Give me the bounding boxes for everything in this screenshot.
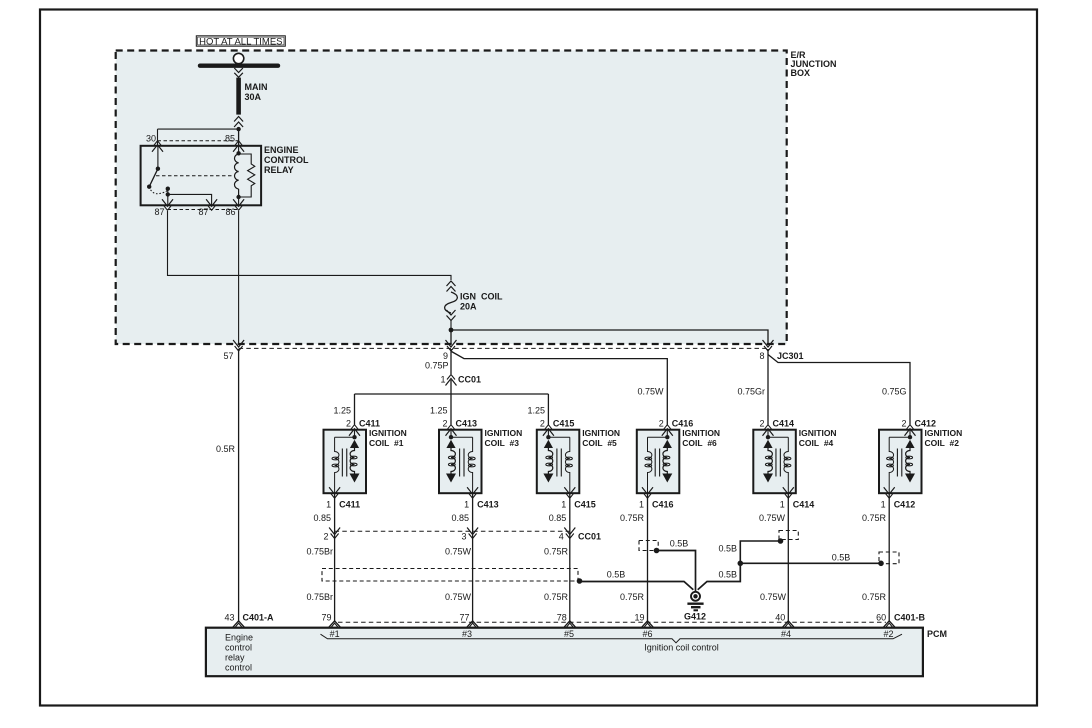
- wire pin 86 down to node 57: [238, 211, 240, 344]
- fuse MAIN 30A terminal top: [234, 68, 243, 73]
- svg-text:C412: C412: [894, 500, 916, 510]
- wire 9 to CC01: [450, 349, 452, 374]
- relay switch contact dot: [147, 185, 151, 189]
- svg-text:MAIN: MAIN: [245, 82, 268, 92]
- connector CC01 pin 2 crossing: [331, 534, 339, 539]
- svg-text:C414: C414: [773, 418, 795, 428]
- ignition coil C414 primary winding loops: [784, 457, 791, 460]
- svg-text:1: 1: [639, 500, 644, 510]
- svg-text:20A: 20A: [460, 302, 477, 312]
- ignition coil C413 core: [459, 449, 461, 477]
- svg-text:#5: #5: [564, 629, 574, 639]
- svg-text:0.5B: 0.5B: [670, 539, 689, 549]
- wire node to JC301 (horizontal): [451, 330, 768, 344]
- svg-text:43: 43: [224, 612, 234, 622]
- ignition coil C415 secondary winding loops: [546, 456, 553, 459]
- ignition coil C416 secondary arrow up: [663, 440, 672, 448]
- relay label: [264, 145, 309, 175]
- PCM pin 78 terminal: [564, 621, 576, 628]
- svg-text:HOT AT ALL TIMES: HOT AT ALL TIMES: [199, 37, 282, 48]
- svg-text:control: control: [225, 663, 252, 673]
- svg-text:C401-B: C401-B: [894, 612, 926, 622]
- ignition coil C413 box: [439, 430, 482, 494]
- ignition coil C415 internal link: [548, 436, 569, 438]
- PCM pin 60 terminal: [883, 621, 895, 628]
- svg-text:2: 2: [323, 532, 328, 542]
- ignition coil C413 label: [485, 428, 523, 448]
- ignition coil C416 internal link: [648, 436, 668, 438]
- relay coil top node: [236, 151, 240, 155]
- ignition coil C413 primary winding loops: [468, 457, 475, 460]
- wire fuse to relay pin 85: [238, 129, 240, 145]
- ignition coil C414 top terminal: [764, 425, 772, 430]
- E/R junction box label: [791, 50, 837, 78]
- relay pin 85 terminal: [235, 141, 243, 146]
- svg-text:C411: C411: [339, 500, 360, 510]
- ignition coil C416 primary winding: [648, 437, 652, 493]
- ignition coil C412 secondary winding: [906, 448, 910, 474]
- svg-text:8: 8: [759, 351, 764, 361]
- svg-text:0.5B: 0.5B: [832, 553, 851, 563]
- wire pin 30 drop: [157, 129, 159, 145]
- relay coil bottom node: [236, 195, 240, 199]
- wire splice4 to junction: [740, 541, 780, 563]
- node ignition feed: [449, 328, 454, 333]
- svg-text:30: 30: [146, 133, 156, 143]
- svg-text:1: 1: [780, 500, 785, 510]
- svg-text:1.25: 1.25: [333, 405, 351, 415]
- ignition coil C413 bottom terminal: [469, 493, 477, 498]
- svg-text:57: 57: [223, 351, 233, 361]
- svg-text:IGNITION: IGNITION: [682, 428, 720, 438]
- svg-text:C415: C415: [574, 500, 596, 510]
- shield box (coil 2): [879, 552, 899, 564]
- relay resistor R1 parallel: [239, 154, 255, 197]
- ignition coil C416 primary feed: [666, 430, 668, 437]
- relay coil tail: [238, 189, 240, 197]
- ignition coil C416 top terminal: [663, 425, 671, 430]
- HOT AT ALL TIMES label: [196, 36, 285, 48]
- ignition coil C414 secondary arrow down: [763, 474, 773, 483]
- wire node down to connector 9: [450, 330, 452, 344]
- connector CC01 dashed line: [335, 530, 570, 532]
- wire branch to coil 3: [450, 394, 452, 425]
- svg-text:1: 1: [326, 500, 331, 510]
- relay switch pivot dot: [156, 167, 160, 171]
- svg-text:C401-A: C401-A: [243, 612, 275, 622]
- relay coil wire top: [238, 146, 240, 154]
- ignition coil C415 primary winding: [565, 437, 569, 493]
- svg-text:IGNITION: IGNITION: [799, 428, 837, 438]
- svg-text:87: 87: [198, 207, 208, 217]
- ground junction node: [738, 561, 744, 567]
- svg-text:IGNITION: IGNITION: [582, 428, 620, 438]
- relay switch blade: [149, 169, 158, 187]
- ignition coil C416 label: [682, 428, 720, 448]
- svg-text:0.75R: 0.75R: [544, 592, 569, 602]
- svg-text:C411: C411: [359, 418, 380, 428]
- svg-text:0.75Gr: 0.75Gr: [737, 386, 765, 396]
- ignition coil C416 core: [654, 449, 656, 477]
- wire junction to ground: [698, 563, 741, 590]
- svg-text:0.75R: 0.75R: [862, 592, 887, 602]
- ignition coil C415 primary winding loops: [566, 457, 573, 460]
- ignition coil C411 top terminal: [351, 425, 359, 430]
- ignition coil C415 core: [556, 449, 558, 477]
- svg-text:87: 87: [154, 207, 164, 217]
- svg-text:4: 4: [559, 532, 564, 542]
- ignition coil C415 label: [582, 428, 620, 448]
- ignition coil C413 top terminal: [447, 425, 455, 430]
- PCM U1 box: [206, 628, 923, 677]
- svg-text:0.5B: 0.5B: [718, 570, 737, 580]
- svg-text:60: 60: [876, 612, 886, 622]
- svg-text:C416: C416: [652, 500, 674, 510]
- ignition coil C416 primary winding loops: [645, 457, 652, 460]
- svg-text:0.75Br: 0.75Br: [306, 592, 333, 602]
- connector CC01 pin 3 crossing: [469, 534, 477, 539]
- connector CC01 pin 1 crossing: [447, 375, 455, 380]
- fuse IGN COIL 20A element: [445, 292, 458, 313]
- ignition coil C414 core: [775, 449, 777, 477]
- svg-text:COIL #6: COIL #6: [682, 438, 717, 448]
- ignition coil C411 secondary arrow down: [350, 474, 360, 483]
- svg-text:0.75G: 0.75G: [882, 386, 907, 396]
- ignition coil C412 primary feed: [909, 430, 911, 437]
- svg-text:40: 40: [775, 612, 785, 622]
- ignition coil C415 secondary winding: [548, 448, 552, 474]
- splice node on shield: [577, 578, 583, 584]
- ignition coil C411 core: [341, 449, 343, 477]
- svg-text:0.75W: 0.75W: [445, 592, 472, 602]
- ignition coil C412 top terminal: [906, 425, 914, 430]
- svg-text:C416: C416: [672, 418, 694, 428]
- svg-text:CONTROL: CONTROL: [264, 155, 309, 165]
- wire coil2 to PCM pin 60: [888, 494, 890, 621]
- wire shield to ground G412: [580, 582, 694, 590]
- connector 57 crossing: [235, 346, 243, 351]
- dashed link pins 30-85: [158, 140, 239, 142]
- svg-text:JC301: JC301: [777, 351, 804, 361]
- wire junction to splice2: [740, 562, 881, 564]
- branch wire to coils 1-3-5: [355, 393, 549, 395]
- svg-text:2: 2: [901, 418, 906, 428]
- relay K1 ENGINE CONTROL RELAY box: [141, 146, 262, 206]
- connector 8 JC301 crossing: [764, 346, 772, 351]
- ignition coil C415 top terminal: [544, 425, 552, 430]
- svg-text:COIL #1: COIL #1: [369, 438, 404, 448]
- svg-text:COIL #4: COIL #4: [799, 438, 834, 448]
- svg-text:86: 86: [225, 207, 235, 217]
- ignition coil C416 secondary winding loops: [663, 456, 670, 459]
- relay contact dot 87 lower: [166, 192, 170, 196]
- splice node coil 2: [878, 561, 884, 567]
- svg-text:1: 1: [464, 500, 469, 510]
- ignition coil C413 secondary winding: [451, 448, 455, 474]
- relay pin 87a terminal: [164, 205, 172, 210]
- ignition coil C413 secondary arrow down: [446, 474, 456, 483]
- relay contact dot 87 upper: [166, 187, 170, 191]
- ignition coil C414 label: [799, 428, 837, 448]
- svg-text:COIL #3: COIL #3: [485, 438, 520, 448]
- svg-text:0.75R: 0.75R: [862, 513, 887, 523]
- relay switch wire from pin 30: [157, 146, 159, 169]
- wire 57 to PCM pin 43: [238, 349, 240, 621]
- wire coil6 to PCM pin 19: [647, 494, 649, 621]
- svg-text:0.5R: 0.5R: [216, 444, 236, 454]
- svg-text:#1: #1: [330, 629, 340, 639]
- svg-text:PCM: PCM: [927, 629, 947, 639]
- ignition coil C415 secondary arrow up: [544, 440, 553, 448]
- splice node coil 6: [654, 548, 660, 554]
- PCM function label engine control relay control: [225, 633, 253, 673]
- svg-text:0.85: 0.85: [451, 513, 469, 523]
- ignition coil C412 secondary arrow up: [905, 440, 914, 448]
- connector 9 crossing: [447, 346, 455, 351]
- relay mechanical link (dashed): [156, 175, 235, 177]
- svg-text:0.75R: 0.75R: [620, 592, 645, 602]
- svg-text:IGNITION: IGNITION: [485, 428, 523, 438]
- relay pin 87b terminal: [208, 205, 216, 210]
- svg-text:2: 2: [540, 418, 545, 428]
- svg-text:0.75W: 0.75W: [445, 547, 472, 557]
- svg-text:9: 9: [443, 351, 448, 361]
- dashed link pins 87-86: [168, 209, 239, 211]
- relay wire to pin 87a: [167, 194, 169, 205]
- shield box (coils 1-3-5): [322, 569, 578, 582]
- ignition coil C415 primary feed: [547, 430, 549, 437]
- svg-text:77: 77: [459, 612, 469, 622]
- svg-text:IGN COIL: IGN COIL: [460, 292, 503, 302]
- ignition coil C416 secondary arrow down: [662, 474, 672, 483]
- relay wire to pin 86: [238, 197, 240, 205]
- svg-text:0.75W: 0.75W: [760, 592, 787, 602]
- ignition coil C414 primary feed: [767, 430, 769, 437]
- brace ignition coil control: [321, 634, 903, 643]
- svg-text:78: 78: [557, 612, 567, 622]
- ignition coil C416 box: [637, 430, 680, 494]
- svg-text:#4: #4: [781, 629, 791, 639]
- relay coil L1: [234, 154, 238, 189]
- svg-text:2: 2: [759, 418, 764, 428]
- ignition coil C414 secondary winding: [768, 448, 772, 474]
- ignition coil C412 primary winding loops: [887, 457, 894, 460]
- ignition coil C415 bottom terminal: [566, 493, 574, 498]
- ignition coil C411 primary winding loops: [332, 457, 339, 460]
- svg-text:0.5B: 0.5B: [607, 570, 626, 580]
- ignition coil C416 bottom terminal: [644, 493, 652, 498]
- svg-text:#2: #2: [883, 629, 893, 639]
- svg-text:2: 2: [346, 418, 351, 428]
- ground G412 symbol: [687, 592, 703, 611]
- ignition coil C412 secondary winding loops: [906, 456, 913, 459]
- svg-text:C413: C413: [477, 500, 499, 510]
- svg-text:0.5B: 0.5B: [718, 544, 737, 554]
- svg-text:COIL #2: COIL #2: [925, 438, 960, 448]
- PCM pin 77 terminal: [466, 621, 478, 628]
- fuse MAIN 30A terminal bottom: [234, 117, 243, 122]
- ignition coil C411 primary feed: [354, 430, 356, 437]
- ignition coil C412 label: [925, 428, 963, 448]
- relay wire to pin 87b: [168, 194, 212, 205]
- svg-text:2: 2: [442, 418, 447, 428]
- fuse IGN COIL 20A terminal top: [447, 281, 456, 286]
- wire CC01 to branch node: [450, 380, 452, 394]
- ignition coil C414 secondary winding loops: [765, 456, 772, 459]
- svg-text:3: 3: [461, 532, 466, 542]
- svg-text:1: 1: [881, 500, 886, 510]
- svg-text:0.75Br: 0.75Br: [306, 547, 333, 557]
- wire coil1 to PCM pin 79: [334, 494, 336, 621]
- ignition coil C413 secondary arrow up: [446, 440, 455, 448]
- ignition coil C412 core: [896, 449, 898, 477]
- svg-text:G412: G412: [684, 611, 706, 621]
- wire pin 87a to IGN COIL fuse: [168, 211, 452, 280]
- ignition coil C414 primary winding: [784, 437, 788, 493]
- ignition coil C411 label: [369, 428, 407, 448]
- wire coil4 to PCM pin 40: [787, 494, 789, 621]
- svg-text:C413: C413: [456, 418, 478, 428]
- ignition coil C412 box: [879, 430, 922, 494]
- svg-text:0.75W: 0.75W: [759, 513, 786, 523]
- wire node to pin 30 (horizontal): [158, 128, 239, 130]
- wire branch to coil 1: [354, 394, 356, 425]
- svg-text:relay: relay: [225, 653, 245, 663]
- fuse IGN COIL 20A terminal bottom: [447, 316, 456, 321]
- relay pin 86 terminal: [235, 205, 243, 210]
- svg-text:#6: #6: [642, 629, 652, 639]
- ignition coil C414 secondary arrow up: [763, 440, 772, 448]
- ignition coil C413 secondary winding loops: [448, 456, 455, 459]
- svg-text:BOX: BOX: [791, 68, 811, 78]
- wire branch to coil 5: [547, 394, 549, 425]
- E/R junction box (dashed): [116, 51, 787, 345]
- svg-text:C412: C412: [915, 418, 937, 428]
- svg-text:1.25: 1.25: [430, 405, 448, 415]
- ignition coil C414 bottom terminal: [784, 493, 792, 498]
- svg-text:79: 79: [321, 612, 331, 622]
- ignition coil C413 primary winding: [468, 437, 472, 493]
- wire JC301 to coil 4: [767, 349, 769, 425]
- svg-text:CC01: CC01: [578, 532, 601, 542]
- svg-text:1.25: 1.25: [527, 405, 545, 415]
- svg-text:Ignition coil control: Ignition coil control: [644, 643, 719, 653]
- PCM pin 43 terminal: [232, 621, 244, 628]
- ignition coil C412 secondary arrow down: [905, 474, 915, 483]
- ignition coil C412 internal link: [889, 436, 910, 438]
- wire fuse to node: [450, 321, 452, 331]
- svg-text:0.75R: 0.75R: [544, 547, 569, 557]
- connector CC01 pin 4 crossing: [566, 534, 574, 539]
- branch wire 9 to coil 6: [452, 352, 668, 425]
- ignition coil C413 internal link: [451, 436, 473, 438]
- svg-text:C414: C414: [793, 500, 815, 510]
- svg-text:RELAY: RELAY: [264, 165, 294, 175]
- connector C401 dashed line: [338, 621, 886, 623]
- svg-text:0.75W: 0.75W: [637, 386, 664, 396]
- ignition coil C412 primary winding: [889, 437, 893, 493]
- svg-text:0.85: 0.85: [549, 513, 567, 523]
- svg-text:85: 85: [225, 133, 235, 143]
- ignition coil C415 box: [537, 430, 580, 494]
- svg-text:Engine: Engine: [225, 633, 253, 643]
- ignition coil C415 secondary arrow down: [543, 474, 553, 483]
- svg-text:2: 2: [659, 418, 664, 428]
- ignition coil C411 bottom terminal: [331, 493, 339, 498]
- svg-text:0.75R: 0.75R: [620, 513, 645, 523]
- ignition coil C414 box: [753, 430, 796, 494]
- branch wire JC301 to coil 2: [768, 355, 910, 425]
- svg-text:IGNITION: IGNITION: [369, 428, 407, 438]
- ignition coil C411 box: [324, 430, 367, 494]
- ignition coil C411 secondary arrow up: [350, 440, 359, 448]
- svg-text:19: 19: [634, 612, 644, 622]
- svg-text:control: control: [225, 643, 252, 653]
- svg-text:CC01: CC01: [458, 375, 481, 385]
- PCM pin 40 terminal: [782, 621, 794, 628]
- wire coil5 to PCM pin 78: [569, 494, 571, 621]
- wire splice6 to ground: [657, 551, 696, 592]
- wire coil3 to PCM pin 77: [472, 494, 474, 621]
- ignition coil C413 primary feed: [450, 430, 452, 437]
- fuse MAIN 30A element: [236, 78, 241, 115]
- svg-text:IGNITION: IGNITION: [925, 428, 963, 438]
- bus bar: [200, 63, 278, 67]
- svg-text:COIL #5: COIL #5: [582, 438, 617, 448]
- ignition coil C411 secondary winding: [350, 448, 354, 474]
- splice node coil 4: [778, 538, 784, 544]
- inline connector dashed line 57-JC301: [239, 347, 768, 349]
- power terminal circle: [233, 53, 243, 63]
- svg-text:1: 1: [561, 500, 566, 510]
- svg-text:1: 1: [440, 375, 445, 385]
- ignition coil C411 internal link: [335, 436, 355, 438]
- svg-text:C415: C415: [553, 418, 575, 428]
- PCM pin 79 terminal: [328, 621, 340, 628]
- ignition coil C414 internal link: [768, 436, 788, 438]
- relay pin 30 terminal: [154, 141, 162, 146]
- svg-text:#3: #3: [462, 629, 472, 639]
- svg-text:0.85: 0.85: [313, 513, 331, 523]
- shield box (coil 6): [639, 541, 658, 551]
- relay contact link: [167, 189, 169, 195]
- svg-text:0.75P: 0.75P: [425, 360, 449, 370]
- ignition coil C416 secondary winding: [663, 448, 667, 474]
- ignition coil C411 secondary winding loops: [350, 456, 357, 459]
- svg-text:ENGINE: ENGINE: [264, 145, 299, 155]
- ignition coil C412 bottom terminal: [885, 493, 893, 498]
- ignition coil C411 primary winding: [335, 437, 339, 493]
- node at fuse output: [236, 127, 240, 131]
- svg-text:30A: 30A: [245, 92, 262, 102]
- PCM pin 19 terminal: [641, 621, 653, 628]
- relay switch throw (dotted arc): [149, 187, 168, 194]
- shield box (coil 4): [779, 531, 798, 540]
